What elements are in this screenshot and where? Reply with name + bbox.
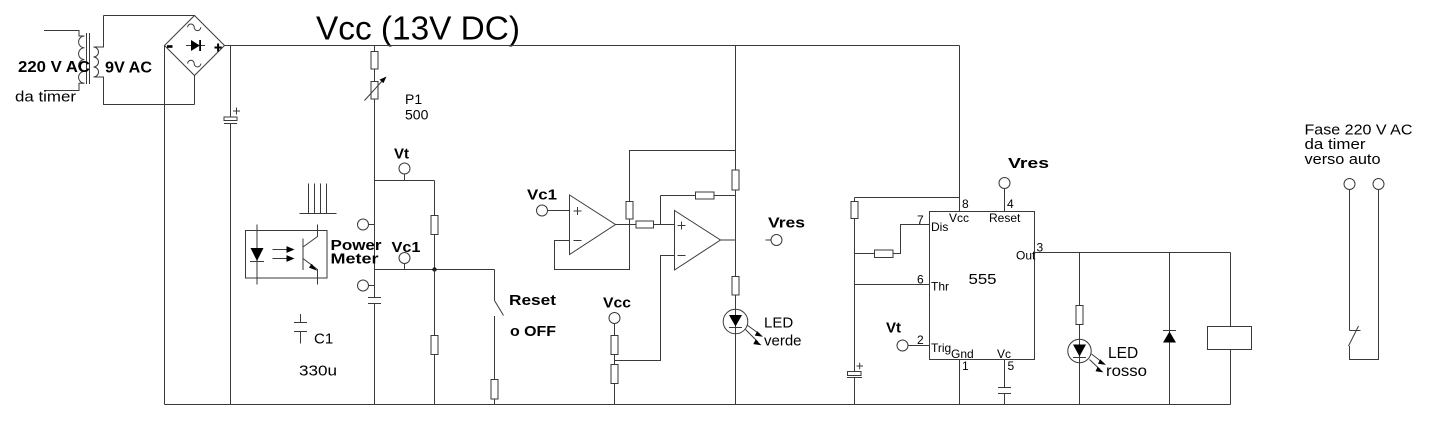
LED verde xyxy=(723,309,748,334)
svg-text:Out: Out xyxy=(1016,249,1036,263)
svg-text:Vt: Vt xyxy=(886,320,901,337)
bridge diode symbol xyxy=(186,45,205,47)
svg-text:verso auto: verso auto xyxy=(1305,151,1381,168)
resistor (Vt branch) xyxy=(431,216,438,235)
pin 5 Vc stem and capacitor xyxy=(998,360,1011,405)
svg-text:P1: P1 xyxy=(405,91,422,107)
terminal Fase right xyxy=(1373,179,1384,190)
optocoupler U (box) xyxy=(246,231,328,279)
svg-text:LED: LED xyxy=(764,315,793,332)
svg-text:5: 5 xyxy=(1008,359,1015,373)
wire U2 output xyxy=(721,239,736,241)
filter capacitor C (polarized) xyxy=(224,117,237,121)
terminal Vcc (divider) xyxy=(609,313,620,324)
relay branch wire xyxy=(1230,253,1232,405)
wire pin 7 Dis xyxy=(855,225,930,254)
capacitor (timing, polarized) xyxy=(848,372,862,376)
svg-text:Vcc: Vcc xyxy=(949,211,969,225)
svg-text:C1: C1 xyxy=(314,331,333,348)
terminal Vres (reset pin) xyxy=(999,178,1010,189)
terminal Vc1 (op-amp input) xyxy=(537,205,548,216)
resistor (discharge horizontal) xyxy=(875,250,894,258)
optocoupler phototransistor xyxy=(303,225,318,285)
wire pin 6 Thr xyxy=(855,284,930,286)
resistor (reset branch) xyxy=(491,380,498,400)
svg-text:LED: LED xyxy=(1108,345,1138,362)
svg-text:Meter: Meter xyxy=(331,251,379,268)
relay contact blade xyxy=(1349,326,1359,346)
discharge column wire xyxy=(854,198,856,405)
pin 3 Out wire xyxy=(1035,252,1231,254)
wire branch to discharge column xyxy=(855,197,960,199)
resistor (LED rosso series) xyxy=(1076,306,1083,325)
LED rosso branch wire xyxy=(1079,253,1081,405)
terminal to optocoupler collector xyxy=(358,219,369,230)
relay coil K1 xyxy=(1208,327,1252,350)
potentiometer P1 arrow xyxy=(365,80,384,101)
svg-text:555: 555 xyxy=(969,271,997,288)
reset switch wire xyxy=(494,270,496,381)
svg-text:rosso: rosso xyxy=(1106,363,1147,380)
svg-text:Vc1: Vc1 xyxy=(527,187,557,204)
wire bridge bottom vertex down xyxy=(194,76,196,105)
potentiometer P1 body xyxy=(371,82,378,100)
capacitor (Vc1 branch) xyxy=(368,298,381,304)
transformer T1 core xyxy=(87,33,90,84)
svg-text:Vcc (13V DC): Vcc (13V DC) xyxy=(316,10,520,47)
bridge minus label xyxy=(167,45,173,48)
bridge plus label xyxy=(215,44,222,52)
wire U1 output xyxy=(616,224,675,226)
optocoupler light arrows xyxy=(273,250,289,259)
wire U2 minus input xyxy=(615,256,675,361)
relay contact switch wire xyxy=(1350,190,1361,331)
svg-text:1: 1 xyxy=(962,359,969,373)
reset switch blade xyxy=(495,301,504,316)
LED verde arrows xyxy=(746,325,760,342)
wire U1 output node column xyxy=(630,151,736,225)
bridge AC tilde bottom xyxy=(188,60,201,67)
resistor (LED verde series) xyxy=(732,277,739,296)
resistor (U2 feedback) xyxy=(696,192,715,199)
terminal Vres (comparator out) xyxy=(771,235,782,246)
resistor (output column top) xyxy=(732,170,739,190)
bridge rectifier diamond xyxy=(165,16,225,76)
svg-text:Reset: Reset xyxy=(509,292,556,309)
svg-text:2: 2 xyxy=(917,333,924,347)
svg-text:Vres: Vres xyxy=(1008,155,1049,172)
wire U2 positive feedback xyxy=(661,196,736,225)
bridge AC tilde top xyxy=(188,24,201,31)
resistor (Vc1 mid branch) xyxy=(431,336,438,355)
svg-text:9V AC: 9V AC xyxy=(105,60,152,77)
svg-text:4: 4 xyxy=(1007,197,1014,211)
svg-text:da timer: da timer xyxy=(15,89,76,106)
svg-text:o OFF: o OFF xyxy=(510,323,556,340)
svg-text:6: 6 xyxy=(917,273,924,287)
filter capacitor branch wire xyxy=(230,46,232,405)
pin 1 Gnd stem xyxy=(959,360,961,405)
LED rosso xyxy=(1068,339,1091,362)
svg-text:330u: 330u xyxy=(299,363,337,380)
svg-text:verde: verde xyxy=(764,333,802,350)
flyback diode branch wire xyxy=(1169,253,1171,405)
junction dot xyxy=(432,267,436,271)
svg-text:Thr: Thr xyxy=(931,280,949,294)
mains comb symbol xyxy=(300,184,337,214)
node Vt terminal xyxy=(399,163,410,174)
svg-text:7: 7 xyxy=(917,213,924,227)
terminal to optocoupler emitter xyxy=(358,280,369,291)
wire secondary top to bridge xyxy=(104,15,195,17)
svg-text:Vc1: Vc1 xyxy=(392,239,421,256)
pin 8 Vcc stem xyxy=(959,46,961,212)
svg-text:Vres: Vres xyxy=(768,215,805,232)
resistor (divider bottom) xyxy=(611,365,618,384)
svg-text:Trig: Trig xyxy=(931,341,951,355)
wire bridge minus to ground rail xyxy=(164,46,166,405)
resistor (U1 out to U2) xyxy=(636,221,654,228)
resistor (555 left column) xyxy=(851,202,858,219)
Vcc rail wire xyxy=(225,45,960,47)
op-amp U2 xyxy=(675,211,721,271)
capacitor C1 annotation symbol xyxy=(294,314,307,344)
svg-text:Vt: Vt xyxy=(394,146,409,163)
wire Vt node xyxy=(375,181,435,216)
op-amp U1 xyxy=(570,195,616,255)
svg-text:3: 3 xyxy=(1037,241,1044,255)
ground rail xyxy=(165,404,1231,406)
terminal Vt (trigger) xyxy=(897,340,908,351)
svg-text:Reset: Reset xyxy=(989,211,1021,225)
svg-text:Dis: Dis xyxy=(931,220,948,234)
svg-text:Vcc: Vcc xyxy=(603,295,631,312)
wire Vc1 node xyxy=(375,269,495,271)
transformer T1 primary winding xyxy=(44,31,85,91)
resistor (series, top) xyxy=(371,52,378,70)
LED rosso arrows xyxy=(1090,354,1103,370)
svg-text:500: 500 xyxy=(405,107,429,123)
resistor (U1 feedback column) xyxy=(626,202,633,220)
main vertical wire x=374.5 xyxy=(374,46,376,405)
wire U1 feedback xyxy=(555,225,630,270)
svg-text:220 V AC: 220 V AC xyxy=(18,59,90,76)
svg-text:8: 8 xyxy=(962,197,969,211)
transformer T1 secondary winding xyxy=(94,16,195,105)
wire U2 output column x=735 xyxy=(735,46,737,405)
wire contact to right terminal xyxy=(1350,190,1379,360)
terminal Fase left xyxy=(1344,179,1355,190)
node Vc1 terminal xyxy=(399,253,410,264)
optocoupler LED xyxy=(256,225,258,285)
resistor (divider top) xyxy=(611,336,618,355)
555 timer U3 box xyxy=(930,212,1035,360)
flyback diode D xyxy=(1163,330,1176,332)
